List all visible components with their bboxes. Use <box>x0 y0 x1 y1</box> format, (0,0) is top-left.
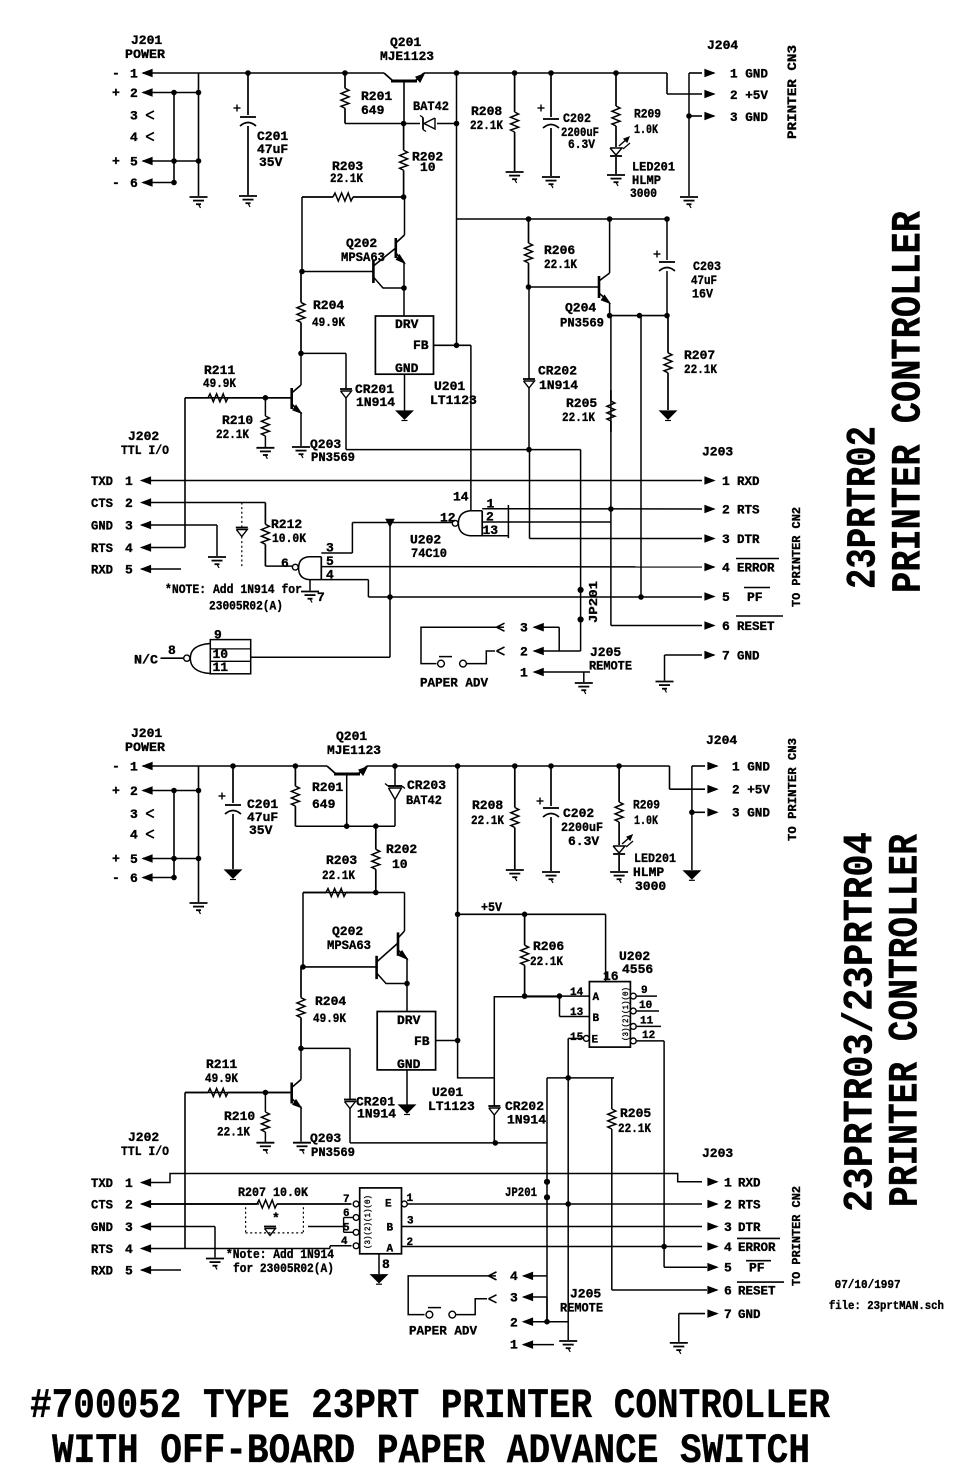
svg-text:10: 10 <box>392 857 408 872</box>
svg-text:PRINTER CN3: PRINTER CN3 <box>785 45 800 139</box>
svg-text:6.3V: 6.3V <box>568 137 595 152</box>
svg-text:1: 1 <box>510 1338 518 1353</box>
svg-text:for 23005R02(A): for 23005R02(A) <box>233 1261 334 1276</box>
svg-text:3: 3 <box>125 519 133 534</box>
svg-text:49.9K: 49.9K <box>203 376 236 391</box>
svg-text:4: 4 <box>341 1236 348 1248</box>
svg-text:GND: GND <box>737 649 760 664</box>
svg-text:22.1K: 22.1K <box>322 868 355 883</box>
svg-text:1 GND: 1 GND <box>730 67 768 82</box>
svg-text:LT1123: LT1123 <box>428 1099 475 1114</box>
svg-text:2: 2 <box>130 86 138 101</box>
svg-text:POWER: POWER <box>125 47 165 62</box>
svg-text:J201: J201 <box>131 33 162 48</box>
svg-text:WITH OFF-BOARD PAPER ADVANCE S: WITH OFF-BOARD PAPER ADVANCE SWITCH <box>52 1427 810 1475</box>
svg-text:J204: J204 <box>707 38 738 53</box>
svg-text:5: 5 <box>125 563 133 578</box>
svg-text:12: 12 <box>440 511 456 526</box>
svg-text:4: 4 <box>130 130 138 145</box>
svg-text:RTS: RTS <box>738 1198 761 1213</box>
svg-text:4: 4 <box>722 561 730 576</box>
svg-text:+: + <box>112 86 120 101</box>
svg-text:49.9K: 49.9K <box>205 1071 238 1086</box>
svg-text:TXD: TXD <box>91 474 113 489</box>
svg-text:-: - <box>112 66 120 81</box>
svg-text:8: 8 <box>168 643 176 658</box>
svg-text:6: 6 <box>722 619 730 634</box>
svg-text:J202: J202 <box>128 1130 159 1145</box>
svg-text:MJE1123: MJE1123 <box>327 743 381 758</box>
svg-text:PN3569: PN3569 <box>560 316 604 331</box>
svg-text:3000: 3000 <box>630 186 657 201</box>
svg-text:3 GND: 3 GND <box>732 806 770 821</box>
svg-text:R209: R209 <box>634 107 661 122</box>
svg-text:2: 2 <box>520 645 528 660</box>
svg-text:3 GND: 3 GND <box>730 110 768 125</box>
svg-text:1.0K: 1.0K <box>634 813 658 828</box>
svg-text:13: 13 <box>483 523 499 538</box>
svg-text:J204: J204 <box>706 733 737 748</box>
svg-text:07/10/1997: 07/10/1997 <box>835 1278 901 1292</box>
svg-text:RXD: RXD <box>737 474 760 489</box>
svg-text:GND: GND <box>397 1057 421 1072</box>
svg-text:CR202: CR202 <box>538 364 577 379</box>
svg-text:PRINTER CONTROLLER: PRINTER CONTROLLER <box>885 210 933 593</box>
svg-text:1: 1 <box>724 1175 732 1190</box>
svg-text:13: 13 <box>570 1007 584 1019</box>
svg-text:*Note: Add 1N914: *Note: Add 1N914 <box>226 1247 334 1262</box>
svg-text:23PRTR02: 23PRTR02 <box>840 426 888 589</box>
svg-text:5: 5 <box>130 155 138 170</box>
svg-text:RTS: RTS <box>737 503 760 518</box>
svg-text:49.9K: 49.9K <box>312 315 345 330</box>
svg-text:2: 2 <box>125 1198 133 1213</box>
svg-text:RXD: RXD <box>91 563 113 578</box>
svg-text:GND: GND <box>91 1220 113 1235</box>
svg-text:1N914: 1N914 <box>356 395 395 410</box>
svg-text:-: - <box>112 871 120 886</box>
svg-text:3: 3 <box>125 1220 133 1235</box>
svg-text:Q203: Q203 <box>310 1131 341 1146</box>
svg-text:RTS: RTS <box>91 541 113 556</box>
svg-text:R208: R208 <box>472 798 503 813</box>
svg-text:JP201: JP201 <box>505 1185 537 1200</box>
svg-text:3: 3 <box>722 532 730 547</box>
svg-text:PAPER ADV: PAPER ADV <box>409 1324 477 1339</box>
svg-text:A: A <box>593 992 600 1004</box>
svg-text:14: 14 <box>453 490 469 505</box>
svg-text:2: 2 <box>722 503 730 518</box>
svg-text:7: 7 <box>343 1194 350 1206</box>
svg-text:3: 3 <box>520 621 528 636</box>
svg-text:1: 1 <box>407 1193 414 1205</box>
svg-text:GND: GND <box>91 519 113 534</box>
svg-text:11: 11 <box>213 660 229 675</box>
svg-text:3: 3 <box>407 1216 414 1228</box>
svg-text:B: B <box>387 1223 394 1235</box>
svg-text:3000: 3000 <box>635 879 666 894</box>
svg-text:C202: C202 <box>563 111 591 126</box>
svg-text:10: 10 <box>639 1000 652 1012</box>
svg-text:4: 4 <box>130 828 138 843</box>
svg-text:C203: C203 <box>693 259 721 274</box>
svg-text:N/C: N/C <box>134 653 158 668</box>
svg-text:R207: R207 <box>684 348 715 363</box>
svg-text:RXD: RXD <box>91 1264 113 1279</box>
svg-text:8: 8 <box>382 1257 390 1272</box>
svg-text:4: 4 <box>125 1242 133 1257</box>
svg-text:6: 6 <box>130 176 138 191</box>
svg-text:TO PRINTER CN2: TO PRINTER CN2 <box>790 1186 804 1286</box>
svg-text:BAT42: BAT42 <box>406 793 442 808</box>
svg-text:J202: J202 <box>128 429 159 444</box>
svg-text:FB: FB <box>414 1034 430 1049</box>
svg-text:(3)(2)(1)(0): (3)(2)(1)(0) <box>364 1195 373 1249</box>
svg-text:1N914: 1N914 <box>357 1107 396 1122</box>
svg-text:1: 1 <box>722 474 730 489</box>
svg-text:file: 23prtMAN.sch: file: 23prtMAN.sch <box>829 1299 944 1313</box>
svg-text:RXD: RXD <box>738 1175 761 1190</box>
svg-text:12: 12 <box>642 1030 655 1042</box>
svg-text:CTS: CTS <box>91 1198 113 1213</box>
svg-text:7: 7 <box>724 1307 732 1322</box>
svg-text:PN3569: PN3569 <box>311 1145 355 1160</box>
svg-text:-: - <box>112 176 120 191</box>
svg-text:R212: R212 <box>271 517 302 532</box>
svg-text:MPSA63: MPSA63 <box>327 938 371 953</box>
svg-text:B: B <box>593 1013 600 1025</box>
svg-text:3: 3 <box>130 807 138 822</box>
svg-text:MJE1123: MJE1123 <box>380 49 434 64</box>
svg-text:LED201: LED201 <box>634 851 676 866</box>
svg-text:6: 6 <box>281 556 289 571</box>
svg-text:+: + <box>112 784 120 799</box>
svg-text:REMOTE: REMOTE <box>589 659 632 674</box>
svg-text:ERROR: ERROR <box>737 561 775 576</box>
svg-text:GND: GND <box>395 361 419 376</box>
svg-text:R209: R209 <box>633 798 660 813</box>
svg-text:R204: R204 <box>313 298 344 313</box>
svg-text:-: - <box>112 759 120 774</box>
svg-text:+5V: +5V <box>481 900 502 915</box>
svg-text:22.1K: 22.1K <box>530 954 563 969</box>
svg-text:5: 5 <box>125 1264 133 1279</box>
svg-text:PN3569: PN3569 <box>311 450 355 465</box>
svg-text:1.0K: 1.0K <box>634 122 658 137</box>
svg-text:22.1K: 22.1K <box>470 118 503 133</box>
svg-text:CR203: CR203 <box>407 778 446 793</box>
svg-text:PAPER ADV: PAPER ADV <box>420 676 488 691</box>
svg-text:10.0K: 10.0K <box>272 531 306 546</box>
svg-text:Q202: Q202 <box>332 924 363 939</box>
svg-text:Q201: Q201 <box>390 35 421 50</box>
svg-text:R208: R208 <box>471 104 502 119</box>
svg-text:1: 1 <box>130 760 138 775</box>
svg-text:22.1K: 22.1K <box>216 427 249 442</box>
svg-text:5: 5 <box>724 1261 732 1276</box>
svg-text:TXD: TXD <box>91 1176 113 1191</box>
svg-text:HLMP: HLMP <box>633 865 664 880</box>
svg-text:6: 6 <box>724 1284 732 1299</box>
svg-text:R203: R203 <box>326 853 357 868</box>
svg-text:3: 3 <box>724 1220 732 1235</box>
svg-text:LT1123: LT1123 <box>430 393 477 408</box>
svg-text:23005R02(A): 23005R02(A) <box>209 599 283 614</box>
svg-text:POWER: POWER <box>125 740 165 755</box>
svg-text:TO PRINTER CN2: TO PRINTER CN2 <box>790 507 804 607</box>
svg-text:16: 16 <box>603 969 619 984</box>
svg-text:R207 10.0K: R207 10.0K <box>238 1185 308 1200</box>
svg-text:4: 4 <box>510 1269 518 1284</box>
svg-text:2: 2 <box>724 1198 732 1213</box>
svg-text:U201: U201 <box>432 1085 463 1100</box>
svg-text:649: 649 <box>361 103 385 118</box>
svg-text:74C10: 74C10 <box>411 546 447 561</box>
svg-text:JP201: JP201 <box>587 581 601 623</box>
svg-text:16V: 16V <box>692 287 713 302</box>
svg-text:RESET: RESET <box>737 619 775 634</box>
svg-text:22.1K: 22.1K <box>217 1125 250 1140</box>
svg-text:#700052 TYPE 23PRT PRINTER CON: #700052 TYPE 23PRT PRINTER CONTROLLER <box>30 1382 831 1430</box>
svg-text:J203: J203 <box>702 445 733 460</box>
svg-text:35V: 35V <box>259 155 283 170</box>
svg-text:9: 9 <box>214 628 222 643</box>
svg-text:649: 649 <box>312 797 336 812</box>
svg-text:6.3V: 6.3V <box>568 834 599 849</box>
svg-text:22.1K: 22.1K <box>471 813 504 828</box>
svg-text:3: 3 <box>130 109 138 124</box>
svg-text:C202: C202 <box>563 806 594 821</box>
svg-text:23PRTR03/23PRTR04: 23PRTR03/23PRTR04 <box>837 832 885 1212</box>
svg-text:PF: PF <box>749 1261 765 1276</box>
svg-text:TTL I/O: TTL I/O <box>121 1144 169 1159</box>
svg-text:4: 4 <box>125 541 133 556</box>
svg-text:R210: R210 <box>222 413 253 428</box>
svg-text:J201: J201 <box>131 726 162 741</box>
svg-text:2: 2 <box>130 784 138 799</box>
svg-text:11: 11 <box>640 1016 654 1028</box>
svg-text:R204: R204 <box>315 994 346 1009</box>
svg-text:J203: J203 <box>702 1146 733 1161</box>
svg-text:R201: R201 <box>312 780 343 795</box>
svg-text:E: E <box>385 1199 392 1211</box>
svg-text:RTS: RTS <box>91 1242 113 1257</box>
svg-text:5: 5 <box>722 590 730 605</box>
svg-text:+: + <box>112 852 120 867</box>
svg-text:3: 3 <box>510 1291 518 1306</box>
svg-text:PF: PF <box>747 590 763 605</box>
svg-text:Q201: Q201 <box>336 729 367 744</box>
svg-text:DRV: DRV <box>397 1013 421 1028</box>
svg-text:4556: 4556 <box>622 962 653 977</box>
svg-text:J205: J205 <box>570 1287 601 1302</box>
svg-text:9: 9 <box>641 985 648 997</box>
svg-text:2 +5V: 2 +5V <box>730 88 768 103</box>
svg-text:DTR: DTR <box>737 532 760 547</box>
svg-text:5: 5 <box>130 852 138 867</box>
svg-text:R205: R205 <box>620 1106 651 1121</box>
svg-text:A: A <box>387 1244 394 1256</box>
svg-text:2: 2 <box>125 496 133 511</box>
svg-text:4: 4 <box>724 1240 732 1255</box>
svg-text:GND: GND <box>738 1307 761 1322</box>
svg-text:22.1K: 22.1K <box>544 257 577 272</box>
svg-text:R210: R210 <box>224 1109 255 1124</box>
svg-text:*: * <box>272 1211 280 1226</box>
svg-text:1N914: 1N914 <box>507 1113 546 1128</box>
svg-text:TTL I/O: TTL I/O <box>121 443 169 458</box>
svg-text:PRINTER CONTROLLER: PRINTER CONTROLLER <box>882 833 930 1207</box>
svg-text:DRV: DRV <box>395 317 419 332</box>
svg-text:1: 1 <box>125 1176 133 1191</box>
svg-text:6: 6 <box>130 871 138 886</box>
svg-text:R201: R201 <box>361 89 392 104</box>
svg-text:TO PRINTER CN3: TO PRINTER CN3 <box>786 738 800 841</box>
svg-text:2: 2 <box>510 1316 518 1331</box>
svg-text:R206: R206 <box>544 243 575 258</box>
svg-text:49.9K: 49.9K <box>313 1011 346 1026</box>
svg-text:CTS: CTS <box>91 496 113 511</box>
svg-text:35V: 35V <box>249 823 273 838</box>
svg-text:R205: R205 <box>566 396 597 411</box>
svg-text:1: 1 <box>520 666 528 681</box>
svg-text:22.1K: 22.1K <box>330 171 363 186</box>
svg-text:R206: R206 <box>533 939 564 954</box>
svg-text:R211: R211 <box>206 1057 237 1072</box>
svg-text:(3)(2)(1)(0): (3)(2)(1)(0) <box>622 987 631 1041</box>
svg-text:22.1K: 22.1K <box>684 362 717 377</box>
svg-text:R202: R202 <box>386 842 417 857</box>
svg-text:+: + <box>112 154 120 169</box>
svg-text:1 GND: 1 GND <box>732 760 770 775</box>
svg-text:1: 1 <box>130 67 138 82</box>
svg-text:10: 10 <box>420 160 436 175</box>
svg-text:7: 7 <box>317 590 325 605</box>
svg-text:Q204: Q204 <box>565 301 596 316</box>
svg-text:BAT42: BAT42 <box>413 99 449 114</box>
svg-text:22.1K: 22.1K <box>618 1121 651 1136</box>
svg-text:*NOTE: Add 1N914 for: *NOTE: Add 1N914 for <box>165 582 302 597</box>
svg-text:FB: FB <box>413 338 429 353</box>
svg-text:REMOTE: REMOTE <box>560 1301 603 1316</box>
svg-text:1: 1 <box>125 474 133 489</box>
svg-text:U201: U201 <box>434 379 465 394</box>
svg-text:DTR: DTR <box>738 1220 761 1235</box>
svg-text:Q202: Q202 <box>346 236 377 251</box>
svg-text:RESET: RESET <box>738 1284 776 1299</box>
svg-text:2200uF: 2200uF <box>561 820 603 835</box>
svg-text:2 +5V: 2 +5V <box>732 783 770 798</box>
svg-text:ERROR: ERROR <box>738 1240 776 1255</box>
svg-text:1N914: 1N914 <box>539 378 578 393</box>
svg-text:7: 7 <box>722 649 730 664</box>
svg-text:14: 14 <box>570 987 584 999</box>
svg-text:22.1K: 22.1K <box>562 410 595 425</box>
svg-text:E: E <box>592 1035 599 1047</box>
